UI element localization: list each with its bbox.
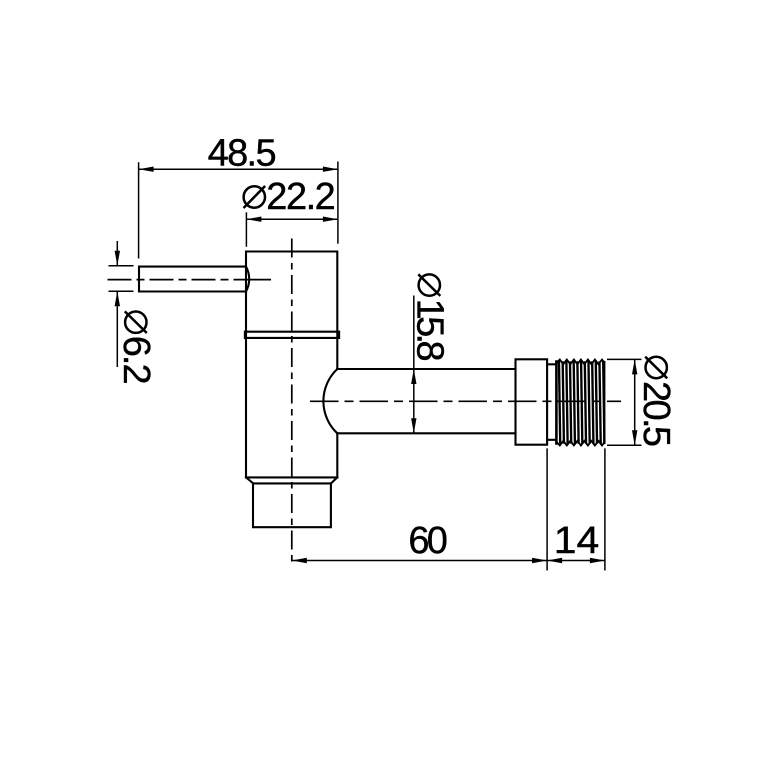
dimension 60 arrows — [292, 558, 547, 563]
dimension 6.2 rotated label — [115, 311, 157, 384]
thread bottom zigzag — [556, 441, 604, 446]
dimension 14 arrows — [547, 558, 605, 563]
svg-text:48.5: 48.5 — [208, 132, 277, 174]
neck groove — [547, 364, 556, 440]
collar ring — [516, 359, 548, 444]
dimension 20.5 line — [634, 359, 636, 445]
dimension 6.2 arrows — [115, 251, 120, 306]
dimension 22.2 extension line — [245, 212, 247, 247]
pipe centerline — [310, 400, 621, 402]
svg-text:20.5: 20.5 — [635, 381, 677, 447]
svg-text:14: 14 — [554, 520, 600, 562]
svg-text:6.2: 6.2 — [115, 336, 157, 385]
dimension 6.2 extension lines — [109, 266, 134, 292]
diameter symbol for 22.2 — [244, 186, 266, 208]
svg-text:60: 60 — [408, 520, 448, 562]
svg-text:15.8: 15.8 — [408, 299, 450, 362]
body vertical centerline — [291, 236, 293, 564]
handle centerline — [108, 279, 272, 281]
thread right edge — [603, 362, 605, 443]
dimension 15.8 line — [413, 369, 415, 433]
dimension 20.5 extension lines — [607, 359, 642, 445]
dimension 60 and 14 extension lines — [547, 448, 605, 570]
body collar band — [245, 332, 339, 338]
dimension 22.2 arrows — [246, 217, 338, 222]
dimension 48.5 extension lines — [139, 162, 338, 259]
svg-text:22.2: 22.2 — [266, 176, 336, 218]
handle lever rod — [139, 267, 249, 292]
spout outlet — [253, 483, 331, 527]
body bottom chamfer — [246, 477, 337, 483]
pipe inner dome — [323, 369, 337, 433]
dimension 15.8 rotated label — [408, 274, 450, 361]
dimension 6.2 leader lines — [116, 241, 118, 367]
outlet pipe — [337, 369, 515, 433]
dimension 22.2 line — [246, 218, 338, 220]
dimension 20.5 arrows — [632, 359, 637, 445]
faucet body outline — [246, 252, 337, 478]
dimension 20.5 rotated label — [635, 357, 677, 447]
dimension 60-14 line — [292, 560, 605, 562]
dimension 48.5 line — [139, 168, 338, 170]
dimension 48.5 arrows — [139, 167, 338, 172]
dimension 15.8 leader line — [413, 296, 415, 370]
dimension 15.8 arrows — [411, 369, 416, 433]
thread top zigzag — [556, 360, 604, 365]
thread left edge — [555, 362, 558, 444]
thread crest lines — [559, 363, 604, 443]
